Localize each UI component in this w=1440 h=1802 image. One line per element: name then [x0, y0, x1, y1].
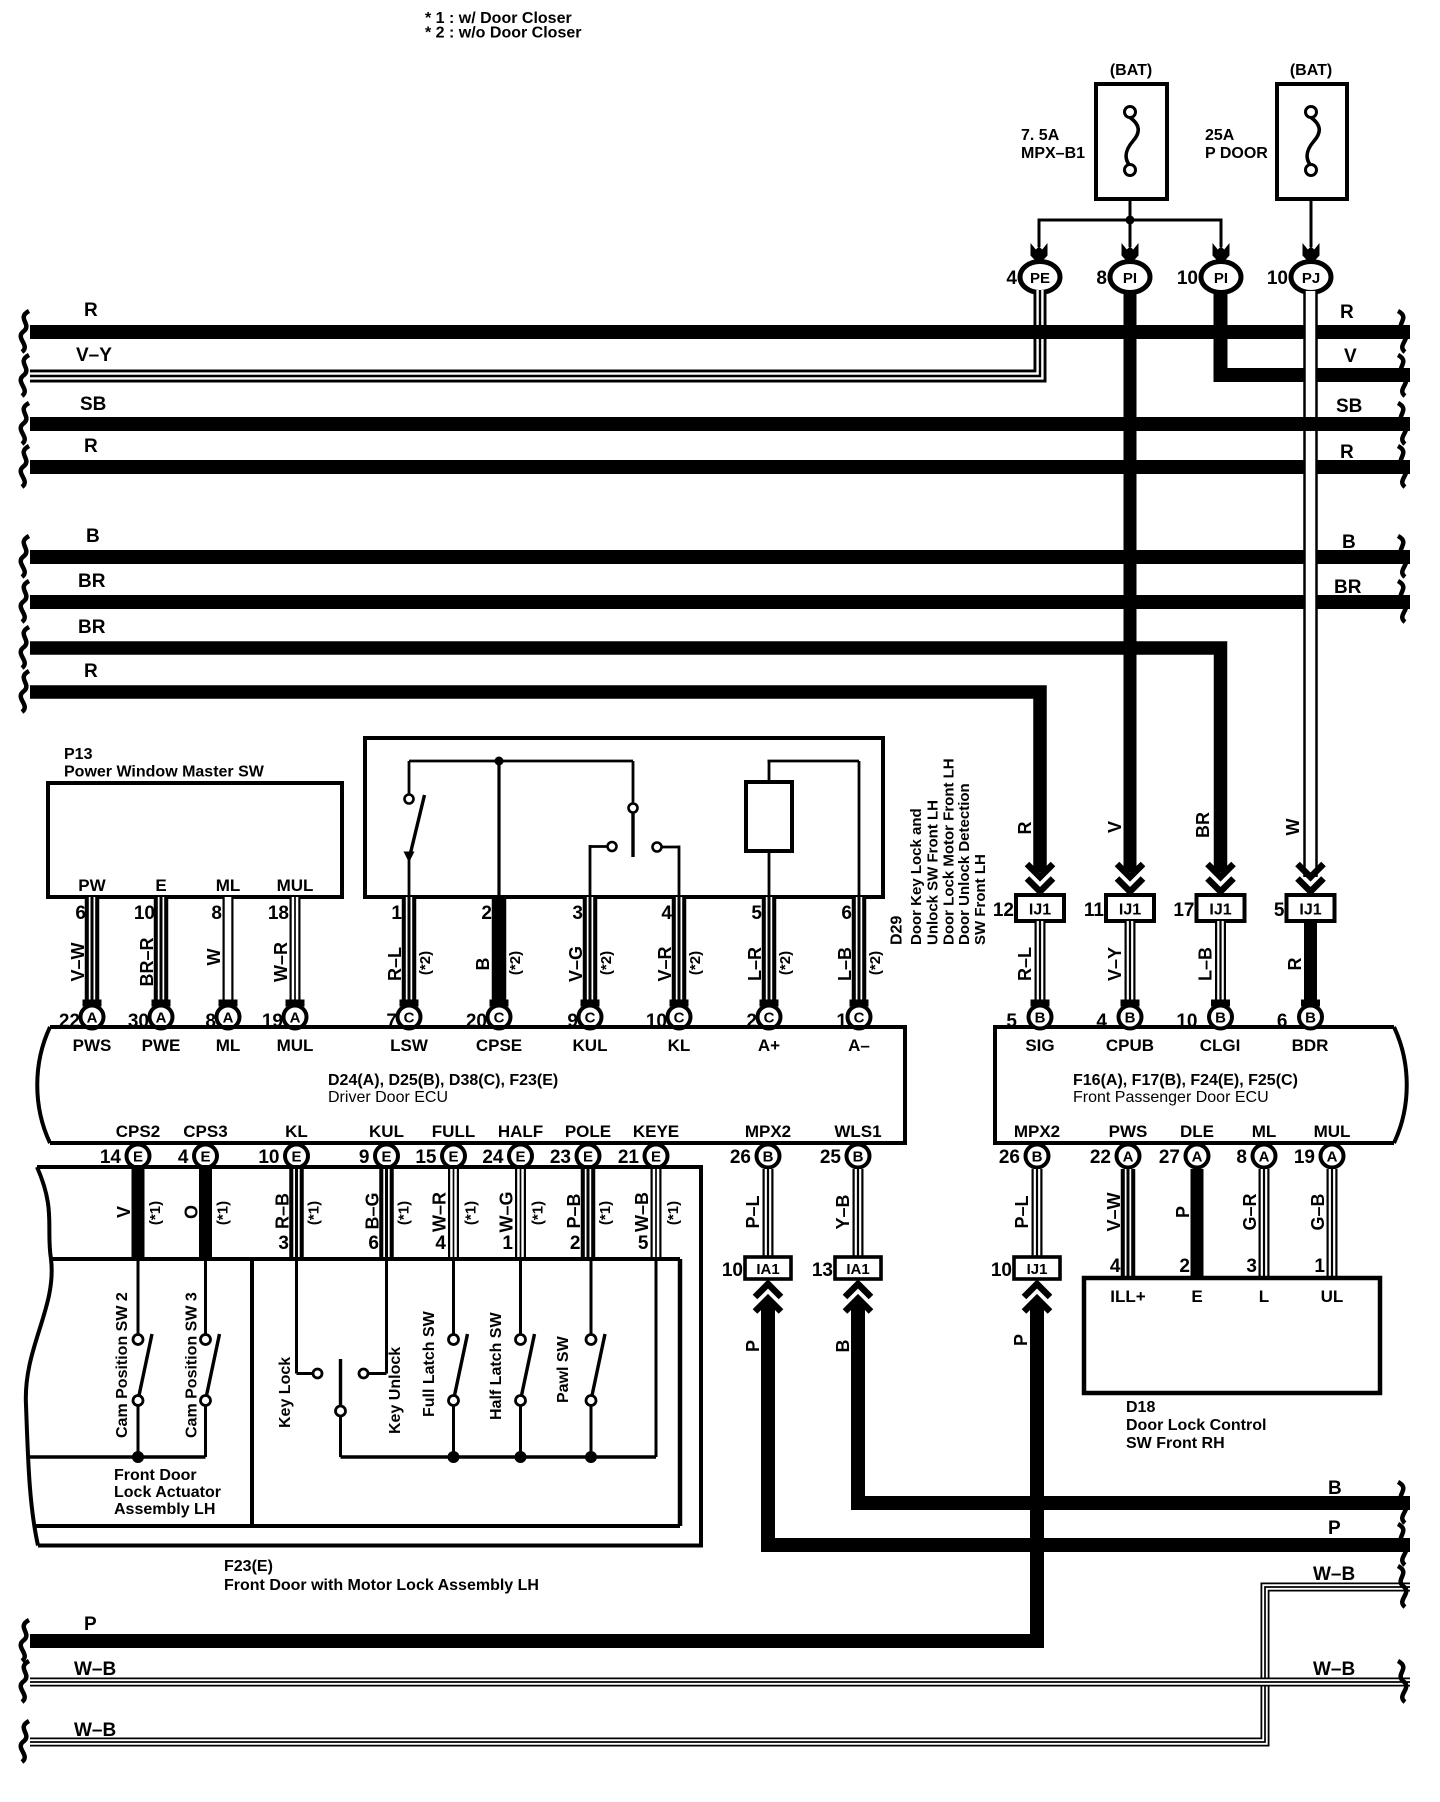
svg-text:CPS2: CPS2: [116, 1122, 160, 1141]
svg-text:P: P: [743, 1340, 763, 1352]
ECU F16 F17 F24 F25 Front Passenger Door ECU: [995, 1027, 1407, 1143]
svg-text:5: 5: [638, 1233, 649, 1254]
svg-text:O: O: [182, 1205, 202, 1219]
wire BR-R pin10 E to 30A: [134, 897, 171, 1007]
wire P-L from 26B driver to 10 IA1: [743, 1169, 768, 1257]
wire internal bus LSW-CPSE-KUL: [409, 760, 633, 763]
svg-text:10: 10: [1176, 1011, 1197, 1032]
wire P-B pin2 from 23E to pawl SW: [564, 1169, 614, 1259]
bus R second: [30, 460, 1410, 474]
svg-text:A: A: [87, 1010, 98, 1027]
svg-text:Door Unlock Detection: Door Unlock Detection: [956, 783, 973, 945]
wire R from left harness to connector 12 IJ1: [30, 692, 1040, 872]
svg-text:MPX2: MPX2: [745, 1122, 791, 1141]
switch key lock-unlock D29: [590, 761, 679, 897]
svg-text:B: B: [1328, 1478, 1342, 1499]
switch LSW door unlock detection: [404, 761, 425, 897]
connector 5 IJ1: [1274, 895, 1335, 921]
svg-text:SW Front LH: SW Front LH: [972, 854, 989, 945]
wire V from connector PI-10 to right harness: [1221, 291, 1411, 375]
svg-text:(BAT): (BAT): [1110, 62, 1152, 79]
svg-text:MPX–B1: MPX–B1: [1021, 145, 1085, 162]
svg-text:12: 12: [993, 900, 1014, 921]
wire fuse P DOOR feed: [1310, 199, 1313, 247]
svg-text:P DOOR: P DOOR: [1205, 145, 1268, 162]
arrow chevrons out of 13 IA1: [845, 1284, 871, 1312]
svg-text:Lock Actuator: Lock Actuator: [114, 1484, 221, 1501]
svg-text:10: 10: [722, 1260, 743, 1281]
wire BR from left harness to connector 17 IJ1: [30, 648, 1221, 872]
connector 19 A MUL: [262, 1006, 307, 1033]
svg-text:R: R: [84, 436, 98, 457]
switch half latch SW: [488, 1259, 535, 1457]
svg-text:V–W: V–W: [68, 942, 88, 981]
svg-text:L–R: L–R: [745, 947, 765, 981]
arrow chevrons into 11 IJ1: [1117, 864, 1143, 892]
svg-text:IJ1: IJ1: [1299, 902, 1321, 919]
svg-text:V–Y: V–Y: [1105, 947, 1125, 981]
svg-text:17: 17: [1173, 900, 1194, 921]
svg-text:E: E: [291, 1149, 301, 1166]
svg-text:ML: ML: [1252, 1122, 1277, 1141]
connector 10 IJ1 bottom: [991, 1257, 1060, 1281]
svg-text:W–B: W–B: [632, 1192, 652, 1232]
svg-text:PI: PI: [1123, 270, 1137, 287]
svg-text:21: 21: [618, 1147, 640, 1168]
svg-text:ML: ML: [216, 876, 241, 895]
svg-text:D18: D18: [1126, 1399, 1155, 1416]
connector 4 B CPUB: [1096, 1006, 1141, 1033]
svg-text:PWE: PWE: [142, 1036, 181, 1055]
svg-text:Driver Door ECU: Driver Door ECU: [328, 1089, 448, 1106]
svg-text:1: 1: [1314, 1256, 1325, 1277]
wire W-R pin4 from 15E to full latch SW: [430, 1169, 480, 1259]
wire fuse MPX-B1 feed: [1129, 199, 1132, 220]
svg-text:C: C: [585, 1010, 596, 1027]
connector 20 C CPSE: [466, 1006, 511, 1033]
node half latch junction: [515, 1451, 527, 1463]
connector 23 E POLE: [550, 1145, 600, 1169]
svg-text:26: 26: [730, 1147, 751, 1168]
svg-text:1: 1: [502, 1233, 513, 1254]
squiggle BR right: [1398, 581, 1406, 622]
svg-text:R: R: [84, 661, 98, 682]
connector 9 C KUL: [567, 1006, 601, 1033]
wire V-R pin4 KL to 10C: [655, 897, 704, 1007]
svg-text:A: A: [1123, 1149, 1134, 1166]
svg-text:6: 6: [841, 903, 852, 924]
svg-text:L: L: [1259, 1287, 1269, 1306]
svg-text:4: 4: [178, 1147, 189, 1168]
svg-text:BR: BR: [78, 571, 106, 592]
wire Y-B from 25B to 13 IA1: [833, 1169, 858, 1257]
svg-text:ML: ML: [216, 1036, 241, 1055]
svg-text:R–L: R–L: [1015, 947, 1035, 981]
svg-text:V: V: [1105, 821, 1125, 833]
svg-text:A+: A+: [758, 1036, 780, 1055]
svg-text:C: C: [674, 1010, 685, 1027]
wire V-W from 22A to D18 ILL+ pin4: [1104, 1169, 1128, 1278]
squiggle SB right: [1398, 403, 1406, 444]
svg-text:PW: PW: [78, 876, 106, 895]
component P13 Power Window Master SW: [48, 746, 342, 897]
svg-text:A: A: [156, 1010, 167, 1027]
wire feed distribution: [1039, 219, 1221, 222]
svg-text:W–B: W–B: [1313, 1659, 1355, 1680]
component F23 Front Door with Motor Lock Assembly LH outer box: [26, 1167, 701, 1546]
svg-text:D24(A), D25(B), D38(C), F23(E): D24(A), D25(B), D38(C), F23(E): [328, 1072, 558, 1089]
svg-text:(*2): (*2): [867, 951, 884, 975]
svg-text:E: E: [1191, 1287, 1202, 1306]
svg-text:IJ1: IJ1: [1027, 1261, 1048, 1278]
svg-text:PWS: PWS: [1109, 1122, 1148, 1141]
svg-text:24: 24: [482, 1147, 504, 1168]
ECU D24 D25 D38 F23 Driver Door ECU: [37, 1027, 905, 1143]
svg-text:Full Latch SW: Full Latch SW: [421, 1310, 438, 1417]
arrow chevrons into 5 IJ1: [1298, 864, 1324, 892]
svg-text:10: 10: [1177, 268, 1198, 289]
svg-text:W–R: W–R: [271, 942, 291, 982]
svg-text:P–L: P–L: [1012, 1195, 1032, 1228]
svg-text:IJ1: IJ1: [1119, 902, 1141, 919]
svg-text:3: 3: [572, 903, 583, 924]
svg-text:F23(E): F23(E): [224, 1558, 273, 1575]
svg-text:14: 14: [100, 1147, 122, 1168]
svg-text:1: 1: [391, 903, 402, 924]
svg-text:V–R: V–R: [655, 946, 675, 981]
svg-text:KEYE: KEYE: [633, 1122, 679, 1141]
wire L-B pin6 A- to 1C: [835, 897, 884, 1007]
connector 22 A PWS: [59, 1006, 104, 1033]
connector 10 PJ: [1291, 262, 1331, 293]
svg-text:HALF: HALF: [498, 1122, 543, 1141]
svg-text:B: B: [1032, 1149, 1043, 1166]
svg-text:3: 3: [278, 1233, 289, 1254]
svg-text:26: 26: [999, 1147, 1020, 1168]
svg-text:C: C: [854, 1010, 865, 1027]
svg-text:BR: BR: [78, 617, 106, 638]
svg-text:MUL: MUL: [1314, 1122, 1351, 1141]
wire CPSE internal: [497, 761, 500, 897]
connector 8 PI: [1110, 262, 1150, 293]
connector 26 B MPX2 driver: [730, 1145, 780, 1169]
svg-text:4: 4: [435, 1233, 446, 1254]
svg-text:2: 2: [481, 903, 492, 924]
svg-text:(*2): (*2): [507, 951, 524, 975]
squiggle P right bottom: [1398, 1524, 1406, 1565]
svg-text:(*1): (*1): [530, 1201, 547, 1225]
connector 10 IA1: [722, 1257, 791, 1281]
connector 22 A PWS passenger: [1090, 1145, 1140, 1169]
svg-text:Door Key Lock and: Door Key Lock and: [908, 808, 925, 945]
svg-text:B: B: [1305, 1010, 1316, 1027]
arrow chevrons out of 10 IJ1: [1024, 1284, 1050, 1312]
connector 12 IJ1: [993, 895, 1064, 921]
svg-text:25: 25: [820, 1147, 842, 1168]
svg-text:POLE: POLE: [565, 1122, 611, 1141]
wire R-B pin3 from 10E to key lock SW: [273, 1169, 323, 1259]
switch key unlock contact: [359, 1259, 404, 1434]
connector 5 B SIG: [1006, 1006, 1051, 1033]
squiggle B right bottom: [1398, 1482, 1406, 1523]
bus W-B middle: [30, 1678, 1410, 1687]
squiggle W-B mid left: [21, 1661, 29, 1702]
switch cam position SW 2: [114, 1259, 152, 1457]
fuse 25A P DOOR: [1205, 62, 1347, 199]
svg-text:L–B: L–B: [835, 947, 855, 981]
svg-text:E: E: [200, 1149, 210, 1166]
svg-text:10: 10: [258, 1147, 279, 1168]
connector 7 C LSW: [386, 1006, 420, 1033]
svg-text:25A: 25A: [1205, 127, 1235, 144]
svg-text:PJ: PJ: [1302, 270, 1320, 287]
svg-text:R: R: [84, 300, 98, 321]
svg-text:B: B: [763, 1149, 774, 1166]
connector 30 A PWE: [128, 1006, 173, 1033]
connector 17 IJ1: [1173, 895, 1244, 921]
connector 10 E KL: [258, 1145, 308, 1169]
svg-text:2: 2: [1179, 1256, 1190, 1277]
svg-text:10: 10: [1267, 268, 1288, 289]
connector 9 E KUL: [359, 1145, 398, 1169]
svg-text:E: E: [381, 1149, 391, 1166]
squiggle V-Y left: [21, 355, 29, 396]
svg-text:E: E: [155, 876, 166, 895]
svg-text:SB: SB: [1336, 396, 1362, 417]
arrow into PI-8: [1122, 243, 1139, 265]
svg-text:(*1): (*1): [396, 1201, 413, 1225]
svg-text:UL: UL: [1321, 1287, 1344, 1306]
svg-text:2: 2: [570, 1233, 581, 1254]
svg-text:ILL+: ILL+: [1110, 1287, 1145, 1306]
arrow chevrons out of 10 IA1: [755, 1284, 781, 1312]
svg-text:R: R: [1285, 958, 1305, 971]
wire O from 4E to cam position SW3: [182, 1169, 232, 1259]
wire P from 10 IA1 to right harness: [743, 1302, 1410, 1545]
svg-text:C: C: [494, 1010, 505, 1027]
svg-text:C: C: [404, 1010, 415, 1027]
wire W from connector PJ to 5 IJ1: [1303, 291, 1318, 877]
svg-text:SW Front RH: SW Front RH: [1126, 1435, 1225, 1452]
svg-text:LSW: LSW: [390, 1036, 429, 1055]
label D29 Door Key Lock block: [889, 758, 990, 945]
wire R-L pin1 LSW to 7C: [385, 897, 434, 1007]
svg-text:Power Window Master SW: Power Window Master SW: [64, 764, 265, 781]
svg-text:4: 4: [661, 903, 672, 924]
svg-text:IJ1: IJ1: [1029, 902, 1051, 919]
svg-text:SB: SB: [80, 394, 106, 415]
svg-text:(*1): (*1): [147, 1201, 164, 1225]
svg-text:IA1: IA1: [756, 1261, 779, 1278]
svg-text:10: 10: [991, 1260, 1012, 1281]
svg-text:BR–R: BR–R: [137, 937, 157, 986]
svg-text:Cam Position SW 2: Cam Position SW 2: [114, 1292, 131, 1438]
svg-text:B: B: [1125, 1010, 1136, 1027]
svg-text:MUL: MUL: [277, 876, 314, 895]
wire W pin8 ML to 8A: [204, 897, 238, 1007]
svg-text:27: 27: [1159, 1147, 1180, 1168]
svg-text:V–Y: V–Y: [76, 345, 112, 366]
node cam SW2 junction: [132, 1451, 144, 1463]
svg-text:18: 18: [268, 903, 289, 924]
svg-text:W: W: [204, 949, 224, 966]
connector 8 A ML: [205, 1006, 239, 1033]
svg-text:E: E: [583, 1149, 593, 1166]
svg-text:23: 23: [550, 1147, 571, 1168]
wire W-G pin1 from 24E to half latch SW: [497, 1169, 547, 1259]
connector 27 A DLE: [1159, 1145, 1209, 1169]
svg-text:KL: KL: [668, 1036, 691, 1055]
connector 10 C KL: [646, 1006, 691, 1033]
node full latch junction: [448, 1451, 460, 1463]
squiggle P left bottom: [21, 1620, 29, 1661]
squiggle BR2 left: [21, 627, 29, 668]
component D18 Door Lock Control SW Front RH: [1084, 1278, 1380, 1452]
component D29 door key lock and unlock SW box: [365, 738, 883, 897]
svg-text:9: 9: [359, 1147, 370, 1168]
connector 26 B MPX2 passenger: [999, 1145, 1049, 1169]
svg-text:5: 5: [1274, 900, 1285, 921]
svg-text:B: B: [1035, 1010, 1046, 1027]
svg-text:V–G: V–G: [566, 946, 586, 982]
svg-text:B: B: [473, 958, 493, 971]
svg-text:B: B: [1342, 532, 1356, 553]
svg-text:Pawl SW: Pawl SW: [555, 1335, 572, 1403]
svg-text:19: 19: [1294, 1147, 1315, 1168]
squiggle W-B bottom left: [21, 1721, 29, 1762]
connector 21 E KEYE: [618, 1145, 668, 1169]
svg-text:3: 3: [1246, 1256, 1257, 1277]
arrow into PI-10: [1213, 243, 1230, 265]
svg-text:(BAT): (BAT): [1290, 62, 1332, 79]
svg-text:Front Passenger Door ECU: Front Passenger Door ECU: [1073, 1089, 1269, 1106]
arrow into PE: [1031, 243, 1048, 265]
squiggle R2 right: [1398, 446, 1406, 487]
svg-text:B: B: [1215, 1010, 1226, 1027]
connector 19 A MUL passenger: [1294, 1145, 1344, 1169]
wire L-R pin5 A+ to 2C: [745, 897, 794, 1007]
switch full latch SW: [421, 1259, 468, 1457]
svg-text:MPX2: MPX2: [1014, 1122, 1060, 1141]
svg-text:B–G: B–G: [363, 1192, 383, 1229]
arrow chevrons into 17 IJ1: [1208, 864, 1234, 892]
svg-text:KUL: KUL: [369, 1122, 404, 1141]
squiggle V right: [1398, 355, 1406, 396]
svg-text:BR: BR: [1193, 812, 1213, 838]
svg-text:W–B: W–B: [1313, 1564, 1355, 1585]
squiggle R left: [21, 311, 29, 352]
wire B from 13 IA1 to right harness: [833, 1302, 1410, 1503]
svg-text:E: E: [448, 1149, 458, 1166]
svg-text:* 2 : w/o Door Closer: * 2 : w/o Door Closer: [425, 25, 581, 42]
svg-text:MUL: MUL: [277, 1036, 314, 1055]
svg-text:A: A: [290, 1010, 301, 1027]
svg-text:BDR: BDR: [1292, 1036, 1329, 1055]
svg-text:(*2): (*2): [598, 951, 615, 975]
wire V-Y from 11 IJ1 to 4B CPUB: [1105, 921, 1140, 1007]
svg-text:CPSE: CPSE: [476, 1036, 522, 1055]
svg-text:4: 4: [1110, 1256, 1121, 1277]
switch pawl SW: [555, 1259, 605, 1457]
squiggle BR left: [21, 581, 29, 622]
connector 15 E FULL: [415, 1145, 465, 1169]
wire W-R pin18 MUL to 19A: [268, 897, 305, 1007]
svg-text:F16(A), F17(B), F24(E), F25(C): F16(A), F17(B), F24(E), F25(C): [1073, 1072, 1298, 1089]
squiggle R right: [1398, 311, 1406, 352]
squiggle B left: [21, 536, 29, 577]
squiggle W-B mid right: [1398, 1661, 1406, 1702]
svg-text:Key Lock: Key Lock: [277, 1357, 294, 1428]
wire V-W pin6 PW to 22A: [68, 897, 102, 1007]
svg-text:Half Latch SW: Half Latch SW: [488, 1312, 505, 1420]
svg-text:7. 5A: 7. 5A: [1021, 127, 1060, 144]
wire W-B pin5 from 21E to switch common: [632, 1169, 682, 1259]
svg-text:5: 5: [1006, 1011, 1017, 1032]
svg-text:P: P: [1173, 1206, 1193, 1218]
svg-text:L–B: L–B: [1196, 947, 1216, 981]
svg-text:(*2): (*2): [687, 951, 704, 975]
wire B-G pin6 from 9E to key unlock SW: [363, 1169, 413, 1259]
squiggle R2 left: [21, 446, 29, 487]
svg-text:P13: P13: [64, 746, 93, 763]
svg-text:22: 22: [1090, 1147, 1111, 1168]
svg-text:E: E: [515, 1149, 525, 1166]
wire R-L from 12 IJ1 to 5B SIG: [1015, 921, 1050, 1007]
svg-text:IA1: IA1: [846, 1261, 869, 1278]
svg-text:6: 6: [75, 903, 86, 924]
bus SB: [30, 417, 1410, 431]
node pawl junction: [585, 1451, 597, 1463]
svg-text:V: V: [114, 1206, 134, 1218]
svg-text:E: E: [651, 1149, 661, 1166]
svg-text:W–B: W–B: [74, 1659, 116, 1680]
svg-text:W–R: W–R: [430, 1192, 450, 1232]
svg-text:Front Door: Front Door: [114, 1467, 197, 1484]
svg-text:Front Door with Motor Lock Ass: Front Door with Motor Lock Assembly LH: [224, 1577, 539, 1594]
wire B pin2 CPSE to 20C: [473, 897, 524, 1007]
wire P from 10 IJ1 to left harness: [30, 1302, 1037, 1641]
svg-text:(*1): (*1): [665, 1201, 682, 1225]
wire G-B from 19A to D18 UL pin1: [1308, 1169, 1332, 1278]
svg-text:P: P: [84, 1614, 97, 1635]
svg-text:KUL: KUL: [573, 1036, 608, 1055]
svg-text:R–B: R–B: [273, 1193, 293, 1229]
svg-text:W–G: W–G: [497, 1191, 517, 1232]
wire G-R from 8A to D18 L pin3: [1240, 1169, 1264, 1278]
wire latch switch common to pin5: [341, 1259, 657, 1457]
svg-text:V–W: V–W: [1104, 1192, 1124, 1231]
svg-text:P: P: [1011, 1334, 1031, 1346]
svg-text:A: A: [1192, 1149, 1203, 1166]
connector 25 B WLS1: [820, 1145, 870, 1169]
fuse 7.5A MPX-B1: [1021, 62, 1167, 199]
wire V-G pin3 KUL to 9C: [566, 897, 615, 1007]
connector 14 E CPS2: [100, 1145, 150, 1169]
squiggle W-B right: [1398, 1566, 1406, 1607]
connector 24 E HALF: [482, 1145, 532, 1169]
svg-text:A: A: [223, 1010, 234, 1027]
resistor door unlock detection: [746, 761, 859, 897]
svg-text:11: 11: [1084, 900, 1105, 921]
svg-text:CLGI: CLGI: [1200, 1036, 1241, 1055]
label F23(E) Front Door with Motor Lock Assembly LH: [224, 1558, 539, 1594]
svg-text:B: B: [86, 526, 100, 547]
svg-text:C: C: [764, 1010, 775, 1027]
connector 8 A ML passenger: [1236, 1145, 1275, 1169]
svg-text:Key Unlock: Key Unlock: [387, 1347, 404, 1434]
svg-text:4: 4: [1096, 1011, 1107, 1032]
svg-text:(*1): (*1): [597, 1201, 614, 1225]
